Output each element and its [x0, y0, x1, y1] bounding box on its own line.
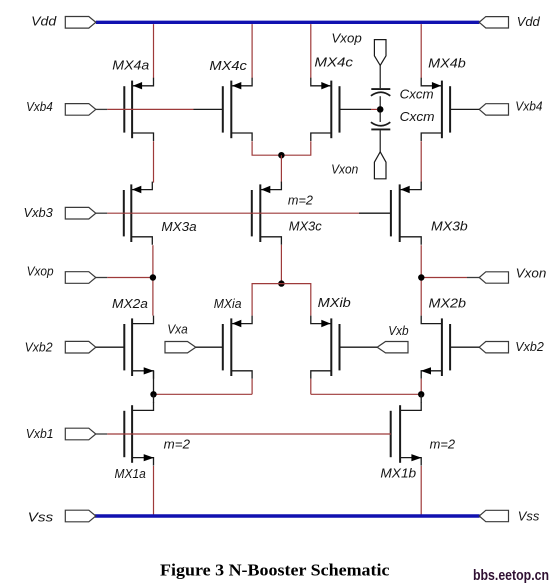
terminal Vss (left) [28, 510, 96, 525]
wire Vxb4 right [450, 108, 479, 110]
terminal Vxb1 (left) [26, 426, 96, 441]
wire Vxon [421, 277, 479, 279]
svg-text:MX3b: MX3b [431, 218, 468, 233]
wire tail node left [154, 393, 253, 395]
label m=2 (MX1b) [430, 437, 456, 452]
transistor MX3b [391, 182, 468, 245]
svg-text:Vxon: Vxon [331, 161, 358, 176]
transistor MX2a [112, 296, 154, 379]
terminal Vxop (top) [331, 31, 386, 66]
terminal Vxb3 (left) [24, 205, 96, 220]
svg-text:Vxop: Vxop [331, 31, 361, 46]
transistor MXia [214, 296, 252, 379]
svg-text:Vss: Vss [518, 508, 540, 523]
wire Vdd to MX4c drain [251, 24, 253, 78]
node Vxon [418, 274, 424, 280]
wire Vdd to MX4b drain [420, 24, 422, 78]
svg-text:m=2: m=2 [164, 437, 191, 452]
svg-text:MX1b: MX1b [380, 465, 416, 480]
wire tail node right [311, 393, 421, 395]
svg-text:Vxon: Vxon [516, 265, 547, 280]
watermark bbs.eetop.cn [473, 568, 549, 584]
transistor MX2b [421, 296, 466, 379]
capacitor Cxcm (lower) [371, 109, 435, 129]
transistor MX4b [421, 56, 466, 141]
wire Vxb1 [96, 433, 391, 435]
transistor MX4c (left) [209, 58, 252, 141]
svg-text:m=2: m=2 [288, 192, 314, 207]
caption [160, 561, 390, 580]
terminal Vxb [377, 323, 408, 353]
svg-text:Vxb4: Vxb4 [26, 99, 53, 114]
transistor MX3a [124, 182, 197, 245]
svg-text:Vdd: Vdd [517, 14, 541, 29]
terminal Vdd (right) [479, 14, 540, 29]
terminal Vxb4 (left) [26, 99, 96, 115]
svg-text:Vxb2: Vxb2 [515, 339, 544, 354]
wire MX3b source to MX2b drain [420, 245, 422, 315]
wire Vxa [196, 346, 223, 348]
svg-text:Cxcm: Cxcm [400, 87, 434, 102]
svg-text:MX4b: MX4b [428, 56, 466, 71]
terminal Vxon (right) [479, 265, 546, 283]
terminal Vxb2 (left) [25, 339, 96, 354]
capacitor Cxcm (upper) [371, 87, 434, 102]
wire Vdd to MX4a drain [153, 24, 155, 78]
transistor MXib [311, 295, 351, 379]
label m=2 (MX1a) [164, 437, 191, 452]
node top-middle [278, 152, 284, 158]
svg-text:m=2: m=2 [430, 437, 456, 452]
transistor MX4a [112, 58, 153, 142]
terminal Vdd (left) [31, 14, 96, 29]
node tail right [418, 391, 424, 397]
wire Vxop [96, 277, 153, 279]
svg-text:Vxb1: Vxb1 [26, 426, 54, 441]
wire Vxb2 left [96, 346, 125, 348]
node tail left [150, 391, 156, 397]
svg-text:MX3c: MX3c [289, 219, 322, 234]
transistor MX4c (right) [311, 55, 354, 141]
svg-text:Vxb: Vxb [388, 323, 408, 338]
svg-text:MX4c: MX4c [209, 58, 247, 73]
wire MX1b source to Vss [420, 466, 422, 515]
terminal Vxon (bottom) [331, 152, 386, 179]
wire MX3a source to MX2a drain [152, 245, 154, 315]
node M [278, 280, 284, 286]
svg-text:MX3a: MX3a [161, 219, 196, 234]
svg-text:MX4c: MX4c [314, 55, 353, 70]
svg-text:MXib: MXib [318, 295, 351, 310]
wire node X to lower Cxcm [379, 113, 381, 122]
svg-text:Vss: Vss [28, 510, 54, 525]
power rail Vss bus [95, 514, 480, 517]
wire MX3c source to node M [280, 245, 282, 284]
wire Vxb4 left [96, 108, 223, 110]
wire MX1a source to Vss [153, 466, 155, 515]
wire Vxb2 right [450, 346, 479, 348]
wire Vxb3 [96, 212, 391, 214]
wire Vxb [340, 346, 378, 348]
svg-text:Vxa: Vxa [167, 322, 188, 337]
node Vxop [150, 274, 156, 280]
power rail Vdd bus [96, 21, 480, 24]
wire MX4b source to MX3b drain [420, 141, 422, 182]
wire Vdd to MX4c right drain [310, 24, 312, 78]
wire Vxop to Cxcm [379, 65, 381, 88]
svg-text:MX4a: MX4a [112, 58, 149, 73]
wire Cxcm to Vxon [379, 130, 381, 152]
label m=2 (MX3c) [288, 192, 314, 207]
terminal Vxb2 (right) [479, 339, 544, 354]
svg-text:Vxb2: Vxb2 [25, 339, 54, 354]
wire MXib source down [310, 379, 312, 395]
svg-text:MX1a: MX1a [115, 466, 146, 481]
terminal Vxop (left) [27, 264, 96, 284]
svg-text:Vxb4: Vxb4 [515, 98, 542, 113]
wire node to MX1b drain [420, 394, 422, 403]
svg-text:bbs.eetop.cn: bbs.eetop.cn [473, 568, 549, 584]
wire node M to MXia/MXib drains [252, 284, 311, 316]
terminal Vxa [165, 322, 196, 353]
wire MXia source down [251, 379, 253, 395]
wire MX4c sources join [252, 141, 311, 155]
terminal Vxb4 (right) [479, 98, 542, 115]
svg-text:Vdd: Vdd [31, 14, 57, 29]
terminal Vss (right) [479, 508, 540, 523]
svg-text:Cxcm: Cxcm [400, 109, 435, 124]
wire MX2b source down [420, 379, 422, 395]
wire node to MX3c drain [280, 155, 282, 182]
wire Cxcm to node X [379, 96, 381, 106]
svg-text:Vxop: Vxop [27, 264, 54, 279]
wire MX4c gate to node X [340, 108, 378, 110]
svg-text:Figure 3 N-Booster Schematic: Figure 3 N-Booster Schematic [160, 561, 390, 580]
transistor MX1a [115, 402, 154, 481]
svg-text:MXia: MXia [214, 296, 242, 311]
node X (cap midpoint) [377, 106, 384, 113]
svg-text:MX2a: MX2a [112, 296, 148, 311]
wire node to MX1a drain [153, 394, 155, 403]
svg-text:Vxb3: Vxb3 [24, 205, 54, 220]
transistor MX1b [380, 402, 421, 480]
svg-text:MX2b: MX2b [429, 296, 467, 311]
wire MX2a source down [153, 371, 155, 394]
transistor MX3c [252, 182, 322, 245]
wire MX4a source to MX3a drain [153, 141, 155, 182]
